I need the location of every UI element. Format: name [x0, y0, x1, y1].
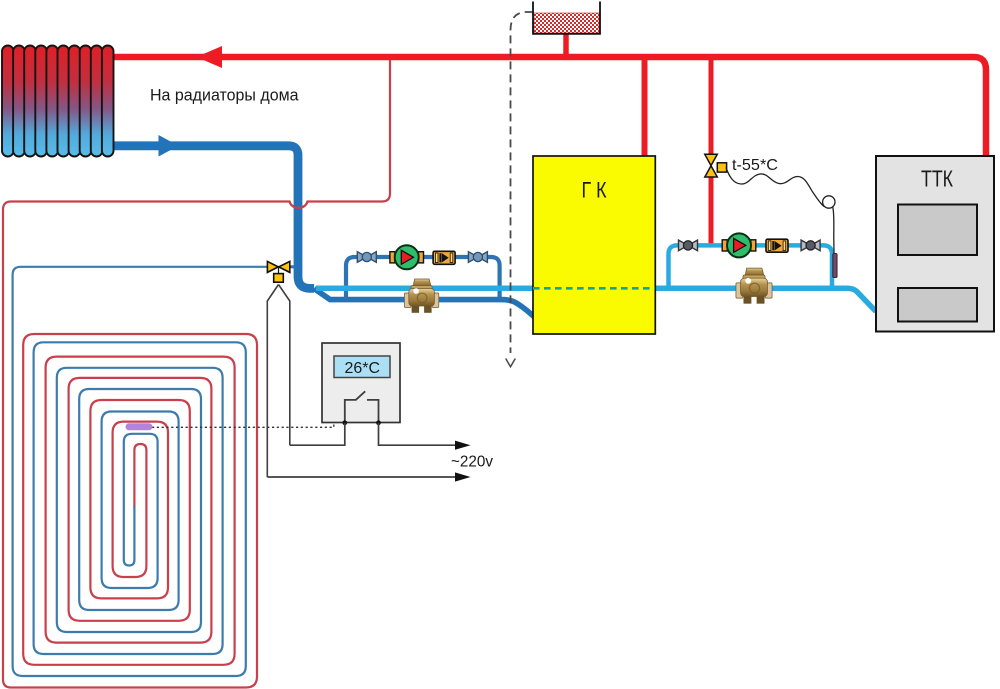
wire: cyan return line right of GK to TTK: [655, 288, 876, 311]
arrowhead of dashed capillary: [506, 359, 516, 367]
wire: red supply main (top horizontal to TTK): [109, 57, 986, 157]
check valve K1 (GK circuit): [433, 251, 455, 264]
valve V3 on TTK pump loop: [679, 240, 698, 251]
check valve K2 (TTK circuit): [766, 239, 788, 252]
svg-text:Г К: Г К: [582, 178, 607, 203]
arrow: blue flow arrow from radiator: [159, 135, 179, 157]
wire: stub from 3-way valve to thick pipe: [288, 265, 295, 268]
three-way mixing valve (yellow): [267, 261, 289, 282]
thermostat box: [322, 343, 400, 425]
wire: thin red floor-heating supply spiral: [3, 60, 390, 688]
wire: red riser to t-55 valve and down to TTK pump loop: [709, 57, 714, 247]
boiler TTK (solid fuel, gray): [876, 156, 994, 332]
radiator (red-blue gradient coil): [2, 46, 114, 157]
svg-text:ТТК: ТТК: [921, 166, 953, 192]
pump P1 (GK circuit): [390, 245, 424, 269]
valve V4 on TTK pump loop: [801, 240, 820, 251]
dotted link: floor sensor to thermostat: [152, 423, 334, 428]
valve V2 on GK pump loop: [468, 252, 487, 263]
expansion tank (open, hatched): [533, 2, 600, 34]
pump P2 (TTK circuit): [722, 233, 756, 257]
wire: red stub of expansion tank: [563, 33, 569, 57]
wire: actuator to 220v (lower): [267, 476, 456, 478]
brass check valve B2 on cyan main: [736, 268, 772, 303]
wire: cyan common return line (left part): [316, 286, 533, 292]
actuator wedge below 3-way valve: [267, 285, 290, 478]
arrow: red flow arrow to radiator: [197, 46, 223, 68]
wire: thermostat to 220v (upper): [379, 423, 457, 445]
wire: thermostat to actuator: [290, 423, 345, 445]
wire: thick blue return pipe from radiator: [111, 146, 314, 289]
boiler GK (gas boiler, yellow): [533, 156, 655, 334]
wire: red riser to GK boiler: [642, 57, 648, 156]
wire: thin blue floor-heating return spiral: [13, 267, 268, 676]
immersion sensor on TTK loop riser: [833, 254, 837, 278]
valve V1 on GK pump loop: [357, 252, 376, 263]
wire: red bump overlay where floor supply crosses blue pipe: [290, 202, 308, 208]
svg-text:26*C: 26*C: [345, 360, 381, 377]
arrow: 220v lower: [455, 472, 471, 481]
capillary tube from t-55 valve to sensor: [726, 168, 824, 207]
dashed capillary from expansion tank: [511, 12, 533, 353]
svg-text:На радиаторы дома: На радиаторы дома: [150, 86, 299, 105]
floor temperature sensor (purple bar): [129, 423, 149, 430]
brass check valve B1 on blue main: [404, 279, 438, 313]
arrow: 220v upper: [455, 441, 471, 450]
dashed teal line across GK redrawn above box: [533, 287, 655, 290]
wire: blue return main to GK: [314, 288, 538, 319]
svg-text:t-55*C: t-55*C: [732, 157, 778, 174]
wire: right pump loop (TTK circuit, cyan): [669, 245, 833, 289]
svg-text:~220v: ~220v: [451, 454, 493, 471]
wire: left pump loop (GK circuit): [346, 257, 500, 299]
overheat valve t-55 (yellow, vertical): [705, 154, 727, 177]
